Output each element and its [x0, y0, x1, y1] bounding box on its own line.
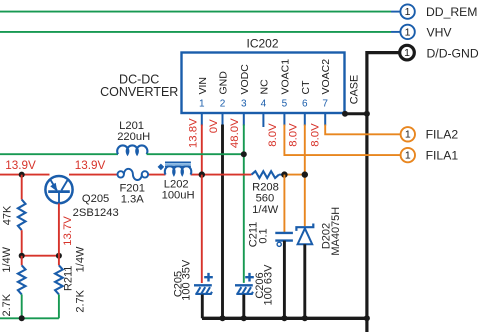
wire C206 bottom (black): [242, 295, 245, 319]
wire CASE pin link (black): [345, 112, 367, 115]
node D/D-GND connector: [400, 45, 415, 60]
wire C205 top (red): [201, 175, 203, 283]
svg-text:D/D-GND: D/D-GND: [427, 46, 479, 60]
inductor L202: [158, 162, 192, 174]
wire D202 bottom (black): [303, 244, 306, 318]
node junction divider left: [19, 253, 25, 259]
svg-text:VHV: VHV: [427, 25, 453, 39]
svg-text:13.8V: 13.8V: [188, 118, 200, 148]
svg-text:R211: R211: [63, 266, 75, 291]
wire F201 to L202 (red): [148, 174, 165, 176]
svg-text:1: 1: [405, 6, 411, 18]
capacitor C211: [275, 233, 293, 247]
node junction pin3/green: [241, 151, 247, 157]
wire CASE vertical to bottom edge: [365, 318, 368, 332]
capacitor C205: [194, 273, 213, 294]
node FILA2 connector: [401, 127, 415, 141]
wire VHV net (green): [0, 31, 391, 33]
node FILA1 connector: [401, 148, 415, 162]
wire 2.7K left bottom (green): [21, 294, 23, 318]
svg-text:CT: CT: [300, 80, 312, 95]
wire 13.9V/L201 net left (green): [0, 153, 118, 155]
wire bottom green net: [0, 317, 59, 319]
svg-text:8.0V: 8.0V: [310, 123, 322, 147]
wire C205 bottom (black): [201, 295, 204, 319]
wire 13.9V net segment B (red): [69, 174, 117, 176]
svg-text:1: 1: [405, 129, 411, 141]
wire pin5 VOAC1 to FILA1 (orange): [284, 125, 400, 156]
svg-text:1: 1: [405, 150, 411, 162]
svg-text:1: 1: [404, 47, 410, 59]
wire R211 bottom (green): [58, 294, 60, 318]
node junction R208/C211: [281, 171, 287, 177]
IC202 pin numbers 1-7: [199, 99, 328, 110]
capacitor C206: [235, 273, 254, 294]
svg-text:100uH: 100uH: [162, 189, 195, 201]
svg-text:13.7V: 13.7V: [62, 216, 74, 246]
svg-text:560: 560: [256, 193, 275, 205]
svg-text:1/4W: 1/4W: [1, 246, 13, 272]
resistor 47K: [18, 200, 26, 231]
resistor R208: [252, 171, 280, 178]
svg-text:1/4W: 1/4W: [75, 246, 87, 272]
wire Q205 base down (red): [58, 203, 60, 265]
wire pin2 GND (black): [221, 125, 224, 319]
svg-text:5: 5: [282, 99, 288, 110]
svg-text:CONVERTER: CONVERTER: [100, 85, 178, 99]
svg-text:220uH: 220uH: [117, 131, 150, 143]
svg-text:VODC: VODC: [239, 64, 251, 95]
node junction pin1/red: [199, 171, 205, 177]
svg-text:100 63V: 100 63V: [262, 264, 274, 306]
svg-text:FILA2: FILA2: [426, 128, 459, 142]
node junction bus pin2: [220, 315, 226, 321]
svg-text:VOAC2: VOAC2: [320, 59, 332, 95]
svg-text:48.0V: 48.0V: [229, 118, 241, 148]
svg-text:0V: 0V: [208, 119, 220, 133]
svg-text:0.1: 0.1: [257, 228, 269, 243]
wire pin3 VODC (green): [243, 125, 245, 283]
svg-text:1/4W: 1/4W: [252, 204, 279, 216]
resistor 2.7K left: [18, 265, 26, 294]
svg-text:8.0V: 8.0V: [288, 123, 300, 147]
node DD_REM connector: [400, 4, 414, 18]
svg-text:FILA1: FILA1: [426, 148, 459, 162]
svg-text:8.0V: 8.0V: [267, 123, 279, 147]
svg-text:Q205: Q205: [82, 193, 109, 205]
svg-text:2: 2: [220, 99, 226, 110]
wire base divider link (red): [22, 255, 59, 257]
svg-text:7: 7: [322, 99, 328, 110]
op-amp/IC U IC202 box: [182, 53, 345, 114]
svg-text:2SB1243: 2SB1243: [73, 207, 119, 219]
inductor L201: [117, 145, 147, 154]
svg-text:VOAC1: VOAC1: [279, 59, 291, 95]
wire 2.7K top lead (red): [21, 256, 23, 266]
wire pin1 VIN (red): [201, 125, 203, 175]
node junction bus C211: [281, 315, 287, 321]
svg-text:1.3A: 1.3A: [121, 194, 145, 206]
wire R208 to CT (orange): [282, 174, 305, 176]
node junction bus CASE: [364, 315, 370, 321]
node junction CASE wire: [364, 111, 370, 117]
svg-text:1: 1: [199, 99, 205, 110]
svg-text:4: 4: [261, 99, 267, 110]
node junction IC corner: [342, 111, 348, 117]
svg-text:100 35V: 100 35V: [180, 259, 192, 301]
svg-text:47K: 47K: [2, 205, 14, 225]
IC202 pin names: [197, 59, 332, 95]
node junction divider right: [56, 253, 62, 259]
wire 13.9V net segment A (red): [0, 174, 50, 176]
wire ground bus (black): [202, 317, 367, 320]
wire C211 top (orange): [283, 175, 285, 233]
svg-text:VIN: VIN: [197, 77, 209, 95]
wire VHV lead (blue): [391, 31, 400, 33]
node VHV connector: [400, 25, 414, 39]
transistor Q205: [45, 176, 72, 203]
fuse F201: [118, 169, 149, 180]
svg-text:IC202: IC202: [246, 36, 278, 50]
IC202 pin stubs: [202, 113, 325, 127]
node junction bus C206: [241, 315, 247, 321]
wire 47K bottom lead (red): [21, 230, 23, 256]
svg-text:13.9V: 13.9V: [75, 159, 106, 172]
wire L202 to R208 (red): [191, 174, 252, 176]
wire pin7 VOAC2 to FILA2 (orange): [325, 125, 400, 135]
svg-text:13.9V: 13.9V: [5, 159, 36, 172]
svg-text:3: 3: [241, 99, 247, 110]
wire pin6 CT (orange): [304, 125, 306, 227]
svg-text:6: 6: [302, 99, 308, 110]
resistor R211: [55, 265, 63, 294]
svg-text:MA4075H: MA4075H: [330, 207, 342, 256]
svg-text:2.7K: 2.7K: [75, 289, 87, 312]
node junction 13.9V left: [19, 172, 25, 178]
node junction bottom green: [19, 315, 25, 321]
wire D/D-GND to CASE (black thick): [367, 53, 400, 319]
node junction CT: [302, 171, 308, 177]
svg-text:GND: GND: [218, 71, 230, 95]
svg-text:CASE: CASE: [349, 75, 361, 104]
svg-text:DD_REM: DD_REM: [426, 5, 477, 19]
svg-text:2.7K: 2.7K: [1, 293, 13, 316]
node junction bus D202: [302, 315, 308, 321]
svg-text:1: 1: [405, 26, 411, 38]
wire L201 to pin3 (green): [147, 153, 244, 155]
wire DD_REM net (green): [0, 11, 391, 13]
wire C211 bottom (black): [283, 241, 286, 319]
svg-text:NC: NC: [258, 79, 270, 95]
wire DD_REM lead (blue): [391, 11, 400, 13]
wire 47K top lead (red): [21, 175, 23, 200]
diode D202 zener: [296, 224, 313, 245]
